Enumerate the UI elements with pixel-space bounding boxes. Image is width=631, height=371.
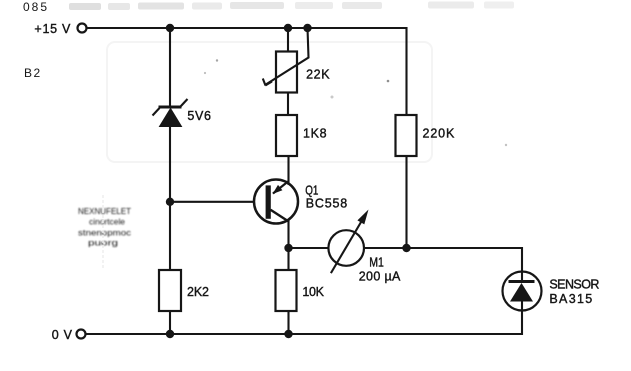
junction top rail / 22K body <box>284 24 292 32</box>
wire sensor to 0V rail <box>521 311 523 336</box>
wire 10K to 0V rail <box>287 311 289 334</box>
svg-text:cinortcele: cinortcele <box>89 218 126 227</box>
meter M1 <box>328 210 368 274</box>
potentiometer 22K (rheostat body) <box>276 52 297 93</box>
wire collector to meter <box>289 247 329 249</box>
transistor Q1 BC558 (PNP) <box>254 180 298 224</box>
svg-text:B2: B2 <box>24 66 42 80</box>
wire 0V ground rail <box>86 333 523 335</box>
svg-text:22K: 22K <box>306 67 330 81</box>
svg-text:stnenopmoc: stnenopmoc <box>78 229 131 238</box>
svg-text:+15 V: +15 V <box>34 22 71 36</box>
svg-text:M1: M1 <box>369 255 384 269</box>
svg-text:5V6: 5V6 <box>187 109 211 123</box>
wire 1K8 to Q1 emitter <box>287 156 289 185</box>
resistor 10K <box>276 270 297 311</box>
svg-text:0 V: 0 V <box>52 328 73 342</box>
wire 2K2 to 0V rail <box>169 311 171 334</box>
junction rail / 10K <box>284 330 292 338</box>
wire zener to base junction and down to 2K2 <box>169 127 171 271</box>
potentiometer 22K wiper arm <box>263 28 309 86</box>
resistor 2K2 <box>159 270 181 311</box>
svg-text:Q1: Q1 <box>305 184 318 198</box>
junction meter wire / 220K <box>402 244 410 252</box>
svg-text:10K: 10K <box>302 285 324 299</box>
wire 22K stem from rail <box>287 28 289 52</box>
svg-text:NEXNUFELET: NEXNUFELET <box>78 207 131 216</box>
faint scan artifacts (decorative) <box>23 0 514 268</box>
node +15V terminal <box>78 24 87 33</box>
wire 220K branch vertical drop <box>405 27 407 115</box>
wire 22K to 1K8 <box>287 93 289 116</box>
resistor 1K8 <box>276 115 297 156</box>
svg-text:2K2: 2K2 <box>187 285 209 299</box>
resistor 220K <box>396 115 417 156</box>
svg-text:200 µA: 200 µA <box>359 270 401 284</box>
junction top rail / zener branch <box>166 24 174 32</box>
svg-text:SENSOR: SENSOR <box>549 277 599 291</box>
wire zener branch upper <box>169 28 171 107</box>
junction rail / 2K2 <box>166 330 174 338</box>
svg-text:BC558: BC558 <box>306 196 348 210</box>
photodiode sensor BA315 <box>503 272 542 311</box>
wire Q1 collector down to 10K <box>287 220 289 270</box>
junction collector / meter / 10K <box>284 244 292 252</box>
wire base lead to Q1 <box>170 201 255 203</box>
wire 220K to meter node <box>405 156 407 248</box>
junction top rail / 22K wiper <box>303 24 311 32</box>
svg-text:085: 085 <box>23 0 49 14</box>
svg-text:1K8: 1K8 <box>303 127 327 141</box>
svg-text:BA315: BA315 <box>549 292 592 306</box>
wire top rail from +15V to 220K corner <box>87 27 407 29</box>
node 0V terminal <box>77 330 86 339</box>
zener diode 5V6 <box>153 99 188 127</box>
junction base node <box>166 198 174 206</box>
svg-text:220K: 220K <box>423 127 455 141</box>
wire meter to sensor corner <box>364 248 522 272</box>
